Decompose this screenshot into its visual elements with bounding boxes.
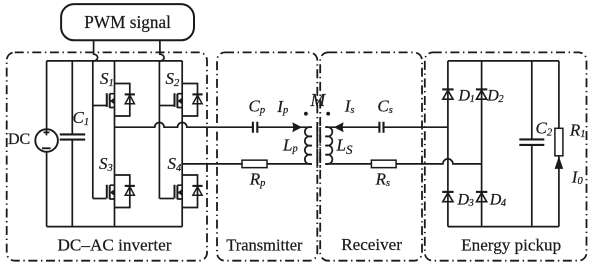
Receiver box border (320, 52, 422, 260)
Transmitter box border (217, 52, 317, 260)
svg-text:M: M (310, 90, 327, 110)
inverter right leg (181, 61, 183, 227)
load branch lower (558, 156, 560, 227)
current Is arrow (334, 122, 344, 132)
Transmitter box right border segment at transformer (316, 121, 318, 170)
inductor Ls secondary coil (325, 127, 332, 164)
left PWM gate wire with hop over top rail (93, 40, 98, 198)
DC-AC inverter box border (7, 52, 207, 260)
resistor Rp (242, 160, 267, 168)
S3 gate lead (93, 198, 107, 200)
bridge left branch (447, 61, 449, 227)
S1 gate lead (93, 105, 107, 107)
svg-text:Energy pickup: Energy pickup (461, 236, 561, 255)
inductor Lp primary coil (305, 127, 312, 164)
top output wire with hops over gate bus and right leg (115, 122, 253, 127)
wire Cs to bridge (384, 126, 448, 128)
current I0 arrow (555, 156, 564, 169)
svg-text:PWM signal: PWM signal (84, 12, 171, 32)
inverter bottom rail (47, 226, 183, 228)
right PWM gate wire with hop over top rail (159, 40, 164, 198)
diode D1 (442, 89, 453, 99)
Energy pickup box border (425, 52, 587, 260)
wire Cp to coil (258, 126, 312, 128)
wire Rp to coil (267, 163, 312, 165)
polarity dot right (326, 112, 330, 116)
S2 gate lead (159, 105, 174, 107)
capacitor C1 branch lower (71, 140, 73, 227)
bridge right branch (481, 61, 483, 227)
resistor Rs (371, 160, 396, 168)
svg-text:Transmitter: Transmitter (226, 236, 303, 255)
inverter left rail upper (46, 61, 48, 129)
inverter top rail (47, 60, 183, 62)
resistor R1 (555, 128, 563, 156)
capacitor Cs plates (379, 122, 383, 133)
svg-text:DC–AC inverter: DC–AC inverter (58, 236, 172, 255)
pickup bottom rail (448, 226, 559, 228)
capacitor C2 branch lower (531, 145, 533, 227)
transmitter bottom wire (182, 163, 242, 165)
receiver top wire (325, 126, 379, 128)
transistor S3 (lower left) (107, 175, 135, 208)
diode D4 (476, 192, 487, 202)
Receiver box left border segment at transformer (319, 121, 321, 170)
capacitor Cp plates (253, 122, 257, 133)
svg-text:DC: DC (8, 131, 30, 148)
pickup top rail (448, 60, 559, 62)
receiver bottom wire (325, 163, 371, 165)
DC source plus (44, 129, 50, 135)
capacitor C2 branch upper (531, 61, 533, 139)
capacitor C1 branch upper (71, 61, 73, 134)
DC source minus (42, 147, 51, 149)
inverter left leg (114, 61, 116, 227)
current Ip arrow (292, 122, 302, 132)
transistor S4 (lower right) (175, 175, 203, 208)
svg-text:Receiver: Receiver (341, 235, 402, 254)
transistor S1 (upper left) (107, 84, 135, 117)
diode D2 (476, 89, 487, 99)
capacitor C2 plates (519, 139, 544, 145)
inverter left rail lower (46, 152, 48, 227)
DC source circle (35, 129, 58, 152)
wire Rs to bridge with hop over left branch (396, 159, 482, 164)
transistor S2 (upper right) (175, 84, 203, 117)
diode D3 (442, 192, 453, 202)
capacitor C1 plates (60, 134, 85, 139)
load branch upper (558, 61, 560, 128)
polarity dot left (304, 112, 308, 116)
S4 gate lead (159, 198, 174, 200)
PWM signal box (61, 4, 194, 40)
